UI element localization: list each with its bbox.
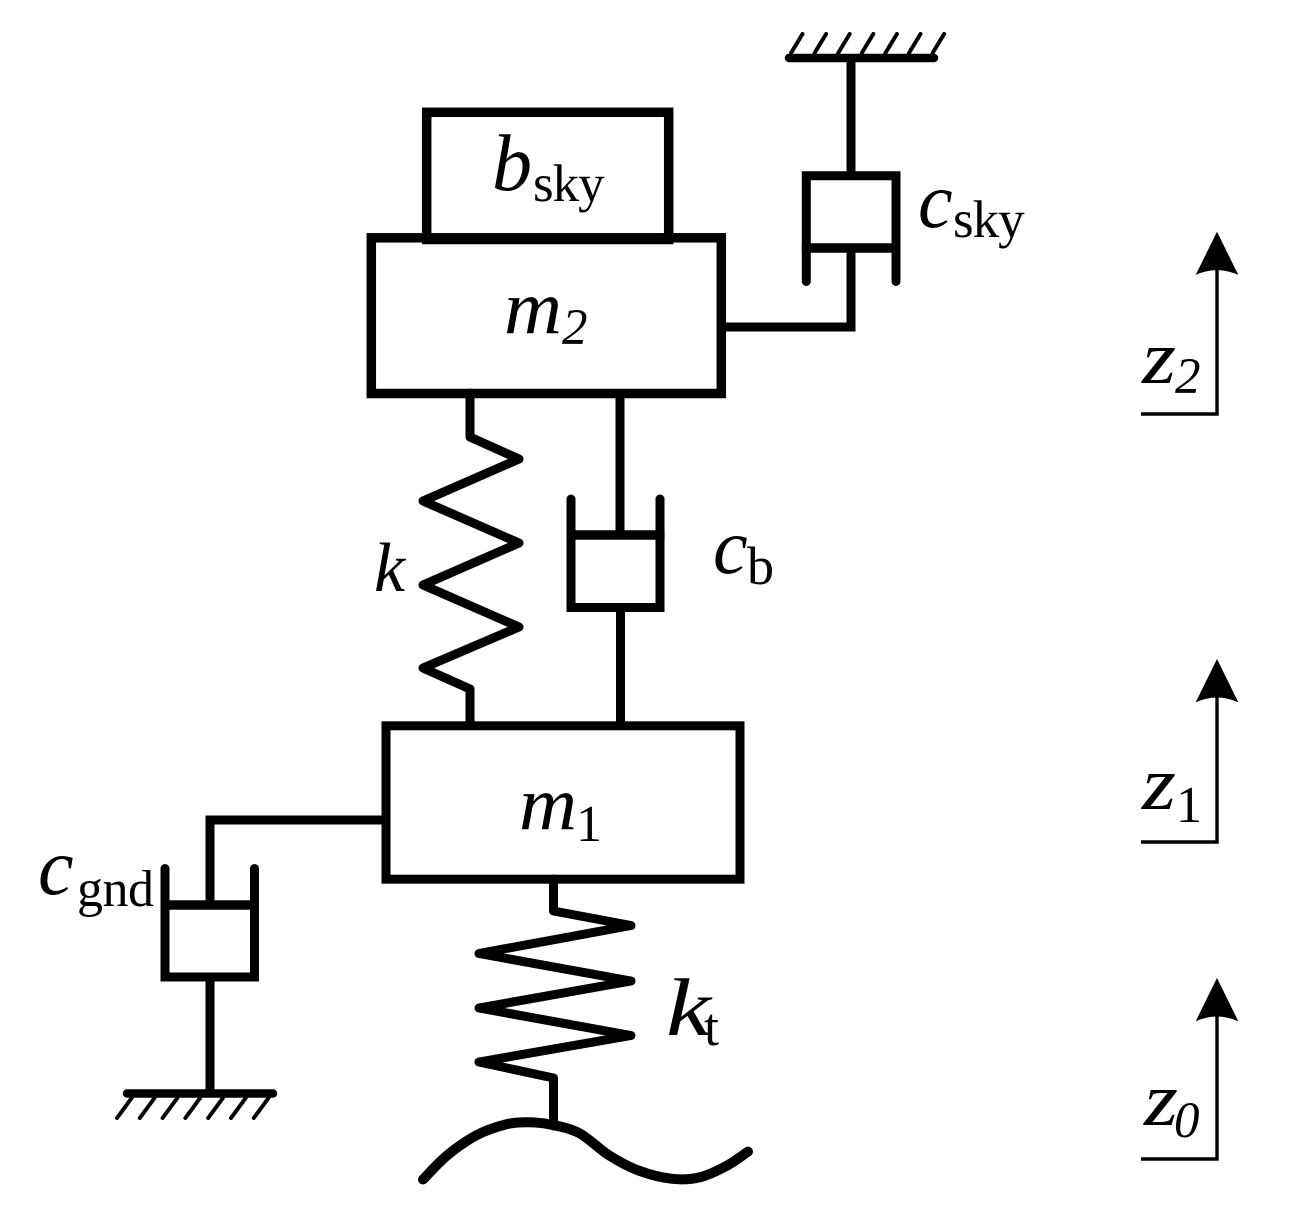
label m2 bbox=[504, 266, 588, 356]
damper c_gnd piston bbox=[161, 900, 260, 910]
damper c_b top rod bbox=[616, 393, 625, 533]
damper c_b bottom rod bbox=[616, 608, 625, 724]
svg-text:t: t bbox=[704, 997, 719, 1057]
label z0 bbox=[1143, 1058, 1200, 1149]
label z2 bbox=[1141, 316, 1201, 405]
damper C_sky piston bbox=[802, 243, 901, 253]
mass m1 box bbox=[386, 726, 740, 879]
svg-text:b: b bbox=[492, 120, 532, 208]
wire m1 to c_gnd bbox=[210, 820, 382, 903]
z1 axis arrow bbox=[1141, 659, 1238, 842]
svg-text:z: z bbox=[1143, 1058, 1178, 1142]
label b_sky bbox=[492, 120, 605, 213]
spring k bbox=[423, 393, 519, 723]
label k_t bbox=[666, 962, 719, 1057]
label c_sky bbox=[918, 157, 1025, 249]
z0 axis arrow bbox=[1141, 978, 1238, 1159]
svg-text:z: z bbox=[1141, 316, 1176, 400]
svg-text:c: c bbox=[918, 157, 953, 244]
wire ceiling to c_sky bbox=[847, 58, 856, 176]
label z1 bbox=[1141, 742, 1202, 834]
svg-text:2: 2 bbox=[1175, 349, 1201, 405]
svg-text:z: z bbox=[1141, 742, 1176, 826]
damper c_b piston bbox=[567, 530, 665, 540]
mass b_sky box bbox=[427, 112, 669, 239]
wire c_sky piston to m2 bbox=[726, 248, 851, 327]
svg-text:gnd: gnd bbox=[77, 861, 154, 918]
label m1 bbox=[519, 762, 602, 853]
svg-text:0: 0 bbox=[1174, 1093, 1200, 1149]
spring k_t bbox=[479, 879, 631, 1126]
damper c_gnd cylinder (cup opening up) bbox=[165, 869, 255, 978]
svg-text:sky: sky bbox=[533, 155, 605, 213]
svg-text:c: c bbox=[38, 824, 74, 912]
svg-text:sky: sky bbox=[953, 191, 1025, 249]
road wave bbox=[423, 1122, 748, 1179]
svg-text:c: c bbox=[713, 503, 748, 590]
z2 axis arrow bbox=[1141, 232, 1238, 414]
svg-text:1: 1 bbox=[576, 796, 602, 853]
damper C_sky cylinder (cup opening down) bbox=[806, 176, 896, 282]
ground symbol bbox=[117, 1094, 273, 1119]
svg-text:1: 1 bbox=[1176, 777, 1202, 834]
label c_b bbox=[713, 503, 774, 596]
svg-text:m: m bbox=[519, 762, 577, 846]
svg-text:m: m bbox=[504, 266, 562, 350]
label k bbox=[374, 530, 407, 607]
ceiling support (skyhook anchor) bbox=[789, 34, 944, 58]
damper c_b cylinder (cup opening up) bbox=[571, 499, 660, 608]
mass m2 box bbox=[371, 238, 721, 394]
svg-text:2: 2 bbox=[562, 300, 588, 356]
label c_gnd bbox=[38, 824, 154, 918]
damper c_gnd bottom rod bbox=[206, 977, 215, 1093]
svg-text:b: b bbox=[747, 536, 774, 596]
svg-text:k: k bbox=[374, 530, 407, 607]
